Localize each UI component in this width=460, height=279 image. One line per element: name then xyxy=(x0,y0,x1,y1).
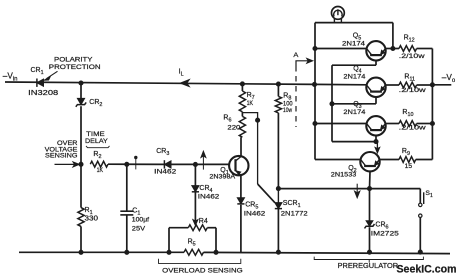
svg-text:15: 15 xyxy=(405,163,413,170)
wire R4 box top left xyxy=(169,227,188,229)
wire input bus from lamp wire down to Q2 collector xyxy=(314,23,316,160)
junction dot middle rail / C1 xyxy=(125,162,129,166)
wire R4 box right vertical xyxy=(215,228,217,253)
wire R7 top lead xyxy=(241,84,243,91)
junction dot right bus / R11 / -Vo tap xyxy=(430,83,434,87)
wire R4 box top right xyxy=(207,227,216,229)
junction dot right bus / R10 xyxy=(430,121,434,125)
small tick crossing middle rail xyxy=(135,156,137,169)
wire CR4 cathode to R4 wiper xyxy=(193,192,198,226)
svg-text:PROTECTION: PROTECTION xyxy=(49,64,101,71)
junction dot control line / Q2 base xyxy=(367,187,371,191)
junction dot bus / Q5 collector xyxy=(313,46,317,50)
bracket for overload sensing xyxy=(159,259,241,264)
wire middle rail R2 right to CR3 xyxy=(108,163,164,165)
resistor R9 xyxy=(399,157,416,163)
wire output bus xyxy=(431,49,433,160)
svg-text:IN462: IN462 xyxy=(198,194,220,201)
wire CR2 cathode down to over-voltage node xyxy=(80,106,82,164)
junction dot top rail / R7 xyxy=(240,82,244,86)
junction dot top rail / left bus node A xyxy=(312,82,316,86)
resistor R1 xyxy=(78,208,84,227)
svg-text:100µf: 100µf xyxy=(132,217,149,224)
wire stub from R7-R6 junction to SCR gate drop xyxy=(242,113,257,184)
junction dot ground rail / SCR1 xyxy=(276,250,280,254)
junction dot top rail / CR2 bus xyxy=(79,81,83,85)
wire -Vo tap xyxy=(432,84,451,86)
wire Q2 emitter to R9 xyxy=(379,159,399,161)
diode CR6 zener xyxy=(366,221,373,226)
pointer arrow from protection label to CR1 xyxy=(44,71,58,80)
svg-text:.2/10w: .2/10w xyxy=(399,53,425,60)
wire Q2 collector row xyxy=(315,159,361,161)
wire R6 bottom to Q1 collector xyxy=(240,137,242,157)
wire lamp right drop to Q5 emitter xyxy=(392,23,394,49)
junction dot Q3 base node xyxy=(374,140,378,144)
wire bases to Q2 emitter with arrow xyxy=(375,142,380,153)
wire R9 to right bus corner xyxy=(416,159,433,161)
junction dot middle rail / CR4 xyxy=(193,162,197,166)
wire SCR1 cathode to ground rail xyxy=(277,209,279,253)
diode CR2 zener xyxy=(77,98,84,104)
transistor Q4 2N174 xyxy=(366,78,385,97)
svg-text:1K: 1K xyxy=(247,100,254,107)
svg-text:2N1772: 2N1772 xyxy=(281,211,308,218)
wire Q4 collector segment of top rail xyxy=(315,83,367,85)
resistor R5 in ground rail xyxy=(184,249,204,255)
resistor R8 xyxy=(275,96,281,113)
junction dot ground rail / box right xyxy=(214,250,218,254)
wire R12 to right bus corner xyxy=(417,48,433,50)
annotation arrow crossing control line xyxy=(355,184,360,198)
switch S1 xyxy=(419,192,424,217)
wire SCR gate diagonal xyxy=(258,184,275,203)
wire CR5 cathode to ground rail xyxy=(240,205,242,253)
wire lamp shunt top xyxy=(315,22,393,24)
current arrow IL on top rail xyxy=(180,80,189,87)
junction dot ground rail / S1 xyxy=(418,250,422,254)
junction dot base bus / Q4 base xyxy=(330,102,334,106)
resistor R7 xyxy=(239,91,245,112)
wire node to R1 top xyxy=(80,164,82,207)
wire Q3 base row xyxy=(332,141,376,143)
wire Q5 base lead xyxy=(375,61,377,66)
SCR1 2N1772 xyxy=(275,189,282,209)
wire R8 top lead xyxy=(277,84,279,96)
lamp indicator xyxy=(332,6,345,22)
over voltage sensing arrow xyxy=(55,162,80,167)
svg-text:SeekIC.com: SeekIC.com xyxy=(397,264,457,276)
svg-text:25V: 25V xyxy=(132,226,146,233)
svg-text:330: 330 xyxy=(85,216,99,223)
svg-text:R4: R4 xyxy=(199,218,208,225)
junction dot ground rail / box left xyxy=(167,250,171,254)
label POLARITY PROTECTION xyxy=(49,57,101,71)
wire C1 top lead xyxy=(126,164,128,211)
svg-text:2N174: 2N174 xyxy=(342,41,365,48)
label TIME DELAY xyxy=(85,131,109,145)
svg-text:IN462: IN462 xyxy=(154,169,176,176)
wire R4 box left vertical xyxy=(168,228,170,253)
wire SCR node to Q2 base and S1 xyxy=(278,188,420,190)
resistor R6 xyxy=(239,116,245,137)
svg-text:IM2725: IM2725 xyxy=(371,231,399,238)
svg-text:IN462: IN462 xyxy=(244,211,266,218)
transistor Q1 2N398A xyxy=(229,156,248,175)
node A arrow and dashed line xyxy=(296,58,313,127)
wire R1 bottom to ground rail xyxy=(80,226,82,252)
wire C1 bottom lead xyxy=(126,215,128,252)
junction dot over-voltage sensing node xyxy=(79,162,83,166)
junction dot top rail / R8 xyxy=(276,82,280,86)
wire Q2 base lead xyxy=(369,171,372,188)
svg-text:1K: 1K xyxy=(97,167,104,174)
wire R10 to right bus xyxy=(417,123,433,125)
wire Q3 emitter to R10 xyxy=(385,123,399,125)
wire between R7 and R6 xyxy=(241,112,243,117)
svg-text:2N174: 2N174 xyxy=(343,109,365,116)
wire CR6 to ground rail xyxy=(369,227,371,252)
junction dot on SCR gate drop xyxy=(256,118,260,122)
svg-text:220: 220 xyxy=(227,125,240,132)
junction dot bus / Q3 collector xyxy=(313,121,317,125)
wire Q1 emitter to CR5 xyxy=(240,175,242,198)
junction dot ground rail / C1 xyxy=(125,250,129,254)
svg-text:POLARITY: POLARITY xyxy=(54,57,93,64)
resistor R2 time delay xyxy=(90,161,108,167)
svg-text:OVERLOAD SENSING: OVERLOAD SENSING xyxy=(162,267,243,274)
wire Q3 base lead xyxy=(375,136,377,142)
diode CR5 xyxy=(237,198,244,204)
svg-text:2N174: 2N174 xyxy=(343,73,365,80)
wire base bus vertical xyxy=(331,65,333,141)
junction dot ground rail / R1 xyxy=(79,250,83,254)
diode CR3 xyxy=(164,161,171,168)
wire control line to S1 xyxy=(419,189,421,204)
wire CR2 anode from top rail xyxy=(80,83,82,98)
brace under preregulator xyxy=(314,257,423,263)
wire Q3 collector row xyxy=(315,123,367,125)
diode CR1 polarity protection xyxy=(37,79,44,86)
wire Q2 base node to CR6 xyxy=(369,189,371,222)
svg-text:.2/10w: .2/10w xyxy=(399,125,426,132)
transistor Q3 2N174 xyxy=(366,116,385,135)
wire Q5 collector row xyxy=(315,48,367,50)
wire Q5 emitter to R12 xyxy=(385,48,399,50)
wire top rail from -Vin to junction A bus xyxy=(5,82,315,84)
wire S1 to ground rail xyxy=(419,217,421,252)
resistor R12 xyxy=(399,46,417,52)
junction dot SCR node xyxy=(276,187,280,191)
svg-text:SENSING: SENSING xyxy=(45,153,78,160)
svg-text:IN3208: IN3208 xyxy=(28,88,58,97)
svg-text:2N398A: 2N398A xyxy=(209,173,235,180)
label OVER VOLTAGE SENSING xyxy=(45,140,78,160)
wire Q4 base lead xyxy=(375,97,377,104)
diode CR4 xyxy=(192,186,199,192)
wire R8 bottom to SCR node xyxy=(277,113,279,189)
underbrace below DELAY xyxy=(86,146,110,148)
wire Q4 base row xyxy=(332,103,376,105)
junction dot ground rail / CR6 xyxy=(367,250,371,254)
wire ground rail left of R5 xyxy=(19,251,184,253)
junction dot Q5 emitter / lamp xyxy=(391,46,395,50)
capacitor C1 plates xyxy=(120,211,133,215)
svg-text:DELAY: DELAY xyxy=(85,138,109,145)
wire ground rail right of R5 xyxy=(204,252,451,253)
svg-text:PREREGULATOR: PREREGULATOR xyxy=(338,263,399,270)
resistor R11 xyxy=(399,82,417,88)
wire R11 to right bus xyxy=(417,84,433,86)
resistor R4 xyxy=(188,225,207,231)
svg-text:.2/10w: .2/10w xyxy=(399,87,426,94)
annotation arrow crossing wire near CR4 xyxy=(201,151,206,169)
transistor Q5 2N174 xyxy=(366,41,385,60)
resistor R10 xyxy=(399,121,417,127)
wire Q5 base row xyxy=(332,64,376,66)
transistor Q2 2N1533 xyxy=(360,152,379,171)
svg-text:2N1533: 2N1533 xyxy=(331,172,357,179)
svg-text:TIME: TIME xyxy=(86,131,105,138)
wire CR3 anode to Q1 base xyxy=(171,163,230,165)
svg-text:10w: 10w xyxy=(283,107,292,114)
wire CR4 anode lead xyxy=(194,164,196,185)
wire Q4 emitter to R11 xyxy=(385,84,399,86)
svg-text:A: A xyxy=(293,52,298,59)
